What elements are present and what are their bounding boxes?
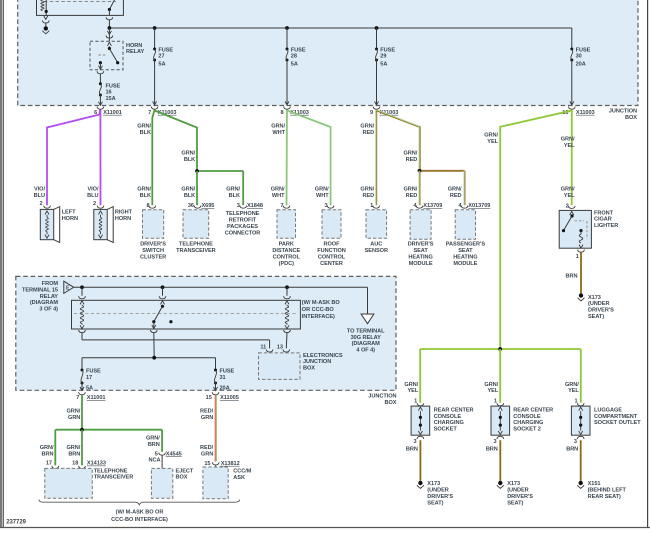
label GRN/YEL (socket 1) <box>404 382 418 394</box>
wire GRN/YEL to socket 1 <box>419 349 421 403</box>
relay K2 (junction box 2) <box>72 300 301 329</box>
connector 17 <box>46 461 59 469</box>
arrow to terminal 30G relay <box>347 314 385 354</box>
svg-text:HORN: HORN <box>115 216 131 222</box>
svg-text:ROOF: ROOF <box>324 242 341 248</box>
svg-text:BRN: BRN <box>406 446 418 452</box>
svg-text:DRIVER'S: DRIVER'S <box>507 494 533 500</box>
svg-text:15: 15 <box>206 395 212 401</box>
wire VIO/BLU to right horn <box>99 110 101 206</box>
svg-text:GRN/: GRN/ <box>315 187 329 193</box>
arrow E from terminal 15 relay <box>64 281 74 293</box>
ground below relay K6 <box>42 16 49 34</box>
horn relay <box>90 41 123 70</box>
svg-text:1: 1 <box>574 399 577 405</box>
svg-text:BRN: BRN <box>566 274 578 280</box>
svg-text:MODULE: MODULE <box>409 261 433 267</box>
fuse 31 <box>214 369 235 392</box>
svg-text:X173: X173 <box>507 481 520 487</box>
label GRN/BLK (transceiver) <box>181 187 195 199</box>
svg-text:SEAT): SEAT) <box>427 500 443 506</box>
svg-text:X11001: X11001 <box>87 395 106 401</box>
svg-text:GRN/: GRN/ <box>561 187 575 193</box>
ground X173 socket 1 <box>417 481 453 507</box>
svg-text:GRN/: GRN/ <box>484 382 498 388</box>
connector 13 <box>277 345 290 352</box>
page border right <box>647 0 649 528</box>
svg-text:OR CCC-BO: OR CCC-BO <box>302 307 335 313</box>
rear center console charging socket <box>411 399 473 445</box>
label GRN/BLK (retrofit) <box>226 187 240 199</box>
svg-text:TELEPHONE: TELEPHONE <box>226 211 260 217</box>
junction box label (top) <box>609 109 638 121</box>
wire GRN/RED to passengers seat heating <box>464 171 465 205</box>
CCC/M ASK box <box>203 467 252 499</box>
svg-text:DRIVER'S: DRIVER'S <box>140 242 166 248</box>
svg-text:SEAT): SEAT) <box>507 500 523 506</box>
right horn <box>94 207 133 243</box>
svg-text:31: 31 <box>220 375 226 381</box>
svg-text:7: 7 <box>148 110 151 116</box>
label GRN/RED (top) <box>360 124 374 136</box>
label GRN/WHT (top) <box>271 124 285 136</box>
svg-text:X11003: X11003 <box>576 110 595 116</box>
wire coil left to connector 11 <box>79 330 270 348</box>
label BRN (cigar) <box>566 274 578 280</box>
wire GRN/BLK to drivers switch cluster <box>152 110 154 206</box>
svg-text:TRANSCEIVER: TRANSCEIVER <box>94 475 134 481</box>
svg-text:YEL: YEL <box>568 388 579 394</box>
connector 2 right horn <box>93 201 104 208</box>
svg-text:HEATING: HEATING <box>408 254 432 260</box>
svg-text:REAR SEAT): REAR SEAT) <box>588 494 621 500</box>
svg-text:15A: 15A <box>106 96 116 102</box>
junction box (top, cut off at top edge) <box>18 0 638 106</box>
svg-text:EJECT: EJECT <box>176 468 194 474</box>
label GRN/BLK (cluster) <box>137 187 151 199</box>
connector 8 drivers switch cluster <box>146 203 155 209</box>
label BRN (socket outlet) <box>566 446 578 452</box>
svg-text:YEL: YEL <box>487 139 498 145</box>
svg-text:5A: 5A <box>380 62 387 68</box>
svg-text:FUSE: FUSE <box>220 369 235 375</box>
svg-text:REAR CENTER: REAR CENTER <box>513 407 553 413</box>
svg-text:CONSOLE: CONSOLE <box>434 414 462 420</box>
svg-text:36: 36 <box>188 203 194 209</box>
wire BRN socket outlet <box>580 440 582 481</box>
wire coil right to connector 13 <box>284 330 291 348</box>
wire GRN/YEL to socket outlet <box>580 349 582 403</box>
wire GRN/BLK to telephone transceiver <box>196 171 198 205</box>
label GRN/BRN (17) <box>40 445 54 457</box>
svg-text:JUNCTION: JUNCTION <box>609 109 637 115</box>
svg-text:CCC/M: CCC/M <box>233 469 251 475</box>
relay K6 (cut off at top) <box>37 0 124 15</box>
relay K2 coil right <box>284 287 291 329</box>
svg-text:CENTER: CENTER <box>320 261 343 267</box>
svg-text:GRN/: GRN/ <box>448 187 462 193</box>
svg-text:(W/ M-ASK BO: (W/ M-ASK BO <box>302 300 341 306</box>
label VIO/BLU (left) <box>34 187 46 199</box>
svg-text:20A: 20A <box>576 62 586 68</box>
svg-text:TERMINAL 15: TERMINAL 15 <box>22 288 58 294</box>
svg-text:3: 3 <box>237 203 240 209</box>
svg-text:FUSE: FUSE <box>106 83 121 89</box>
label GRN/RED (auc) <box>360 187 374 199</box>
svg-text:JUNCTION: JUNCTION <box>368 394 396 400</box>
svg-text:GRN/: GRN/ <box>181 187 195 193</box>
telephone transceiver <box>176 210 216 254</box>
svg-text:VIO/: VIO/ <box>34 187 45 193</box>
svg-text:FUSE: FUSE <box>380 47 395 53</box>
roof function control center <box>317 210 346 267</box>
connector 3 roof function center <box>325 203 334 209</box>
label GRN/GRN <box>67 409 81 421</box>
svg-text:FROM: FROM <box>42 281 59 287</box>
svg-text:GRN: GRN <box>201 415 213 421</box>
svg-text:TELEPHONE: TELEPHONE <box>179 242 213 248</box>
connector 6 X11001 <box>94 107 122 116</box>
label GRN/YEL (top) <box>561 137 575 149</box>
svg-text:11: 11 <box>260 345 266 351</box>
svg-text:COMPARTMENT: COMPARTMENT <box>594 414 638 420</box>
svg-text:GRN/: GRN/ <box>484 133 498 139</box>
node GRN split <box>55 428 162 432</box>
svg-text:REAR CENTER: REAR CENTER <box>434 407 474 413</box>
wire GRN/BRN to transceiver pin 18 <box>81 430 83 466</box>
connector 2 cigar lighter <box>566 203 575 209</box>
svg-text:X013709: X013709 <box>468 203 490 209</box>
fuse 30 <box>570 28 591 105</box>
svg-text:3: 3 <box>414 439 417 445</box>
svg-text:3: 3 <box>574 439 577 445</box>
connector 15 X11005 <box>206 392 239 401</box>
label GRN/BLK (branch) <box>181 151 195 163</box>
wire GRN/RED to drivers seat heating <box>419 171 420 205</box>
wire BRN socket 2 <box>499 440 501 481</box>
svg-text:CONTROL: CONTROL <box>273 254 301 260</box>
bus wire (top horizontal) <box>108 26 572 30</box>
label NCA <box>149 458 161 464</box>
svg-text:SWITCH: SWITCH <box>142 248 164 254</box>
svg-text:BLU: BLU <box>34 193 45 199</box>
svg-text:HORN: HORN <box>126 43 142 49</box>
svg-text:GRN/: GRN/ <box>146 435 160 441</box>
svg-text:18: 18 <box>72 461 78 467</box>
svg-text:CLUSTER: CLUSTER <box>140 254 166 260</box>
bus wire 2 (terminal 15) <box>74 285 368 289</box>
wire GRN/YEL socket bus <box>420 347 581 351</box>
svg-text:DRIVER'S: DRIVER'S <box>588 308 614 314</box>
wire RED/GRN from connector 15 <box>215 395 216 462</box>
svg-text:CONNECTOR: CONNECTOR <box>225 230 261 236</box>
svg-text:GRN/: GRN/ <box>67 409 81 415</box>
svg-text:5A: 5A <box>158 62 165 68</box>
connector 11 <box>260 345 273 352</box>
connector 10 X11003 <box>562 107 594 116</box>
svg-text:GRN/: GRN/ <box>271 124 285 130</box>
svg-text:FUNCTION: FUNCTION <box>317 248 346 254</box>
svg-text:JUNCTION: JUNCTION <box>303 359 331 365</box>
svg-text:GRN/: GRN/ <box>137 187 151 193</box>
front cigar lighter <box>559 210 618 248</box>
connector 4 X013709 <box>458 203 490 209</box>
svg-text:BLK: BLK <box>184 157 195 163</box>
connector 8 X11003 <box>281 107 309 116</box>
svg-text:BRN: BRN <box>486 446 498 452</box>
svg-text:(UNDER: (UNDER <box>588 301 609 307</box>
svg-text:GRN/: GRN/ <box>360 187 374 193</box>
svg-text:BOX: BOX <box>303 366 315 372</box>
svg-text:RED: RED <box>406 157 418 163</box>
park distance control (PDC) <box>272 210 300 267</box>
svg-text:RELAY: RELAY <box>126 49 145 55</box>
label GRN/RED (pass seat) <box>448 187 462 199</box>
svg-text:(DIAGRAM: (DIAGRAM <box>30 300 59 306</box>
wire BRN from cigar lighter <box>580 252 582 293</box>
svg-text:RED: RED <box>406 193 418 199</box>
node GRN/BLK split <box>195 169 243 173</box>
svg-text:28: 28 <box>291 54 297 60</box>
wire GRN/BLK branch to telephone <box>155 111 197 172</box>
svg-text:SEAT: SEAT <box>413 248 428 254</box>
svg-text:X14133: X14133 <box>87 461 106 467</box>
svg-text:RIGHT: RIGHT <box>115 210 133 216</box>
svg-text:5A: 5A <box>86 386 93 392</box>
svg-text:YEL: YEL <box>564 143 575 149</box>
svg-text:WHT: WHT <box>272 130 285 136</box>
ground X173 under drivers seat (cigar) <box>578 293 615 320</box>
svg-text:2: 2 <box>93 201 96 207</box>
wire GRN/RED branch <box>377 110 420 171</box>
svg-text:BOX: BOX <box>625 115 637 121</box>
label GRN/BLK (top) <box>137 124 151 136</box>
svg-text:30G RELAY: 30G RELAY <box>351 335 381 341</box>
label GRN/RED (branch) <box>404 151 418 163</box>
connector 36 X695 <box>188 203 215 209</box>
svg-text:GRN/: GRN/ <box>67 445 81 451</box>
svg-text:RED: RED <box>450 193 462 199</box>
wire GRN/RED to AUC sensor <box>376 110 377 206</box>
svg-text:FUSE: FUSE <box>576 47 591 53</box>
left horn <box>40 207 78 243</box>
svg-text:GRN/: GRN/ <box>226 187 240 193</box>
electronics junction box <box>259 353 343 380</box>
label GRN/YEL (socket outlet) <box>565 382 579 394</box>
svg-text:17: 17 <box>86 375 92 381</box>
svg-text:X13812: X13812 <box>221 461 240 467</box>
svg-text:TELEPHONE: TELEPHONE <box>94 468 128 474</box>
svg-text:RED: RED <box>363 193 375 199</box>
svg-text:BLK: BLK <box>140 193 151 199</box>
svg-text:GRN/: GRN/ <box>561 137 575 143</box>
svg-text:X13709: X13709 <box>423 203 442 209</box>
svg-text:BRN: BRN <box>68 452 80 458</box>
wire GRN/YEL to socket 2 <box>499 349 501 403</box>
svg-text:5A: 5A <box>291 62 298 68</box>
wire bus to horn relay <box>106 28 113 41</box>
svg-text:1: 1 <box>494 399 497 405</box>
svg-text:GRN/: GRN/ <box>404 187 418 193</box>
connector 5 X4545 <box>155 451 182 457</box>
svg-text:3 OF 4): 3 OF 4) <box>39 306 58 312</box>
label RED/GRN (top) <box>200 409 214 421</box>
svg-text:CONTROL: CONTROL <box>318 254 346 260</box>
wire GRN/BRN to eject box <box>161 430 163 452</box>
svg-text:HORN: HORN <box>62 216 78 222</box>
connector 9 X11003 <box>370 107 398 116</box>
page number 237729 <box>6 520 26 526</box>
svg-text:TO TERMINAL: TO TERMINAL <box>347 329 385 335</box>
svg-text:FUSE: FUSE <box>291 47 306 53</box>
svg-text:WHT: WHT <box>316 193 329 199</box>
fuse 16 label <box>106 83 121 102</box>
svg-text:17: 17 <box>46 461 52 467</box>
label RED/GRN (bottom) <box>200 445 214 457</box>
svg-text:BLU: BLU <box>87 193 98 199</box>
svg-text:LUGGAGE: LUGGAGE <box>594 407 622 413</box>
svg-text:VIO/: VIO/ <box>88 187 99 193</box>
wire GRN/BLK to retrofit connector <box>242 171 244 205</box>
AUC sensor <box>365 210 388 254</box>
svg-text:RED/: RED/ <box>200 445 214 451</box>
svg-text:5: 5 <box>155 451 158 457</box>
svg-text:GRN/: GRN/ <box>404 382 418 388</box>
svg-text:X151: X151 <box>588 481 601 487</box>
svg-text:1: 1 <box>414 399 417 405</box>
connector 18 X14133 <box>72 461 106 469</box>
ground X173 socket 2 <box>497 481 533 507</box>
relay K2 switch <box>152 287 173 329</box>
label W/ M-ASK-BO interface (relay) <box>302 300 341 320</box>
label GRN/BRN (eject) <box>146 435 160 447</box>
svg-text:15: 15 <box>204 461 210 467</box>
svg-text:(BEHIND LEFT: (BEHIND LEFT <box>588 488 627 494</box>
drivers seat heating module <box>408 210 434 267</box>
telephone retrofit packages connector <box>225 211 261 236</box>
svg-text:(PDC): (PDC) <box>279 261 294 267</box>
connector 15 X13812 <box>204 461 239 467</box>
svg-text:X173: X173 <box>427 481 440 487</box>
connector 2 left horn <box>39 201 50 208</box>
svg-text:CCC-BO INTERFACE): CCC-BO INTERFACE) <box>111 517 168 523</box>
svg-text:SOCKET OUTLET: SOCKET OUTLET <box>594 420 641 426</box>
svg-text:DISTANCE: DISTANCE <box>272 248 300 254</box>
svg-text:GRN/: GRN/ <box>137 124 151 130</box>
svg-text:LIGHTER: LIGHTER <box>594 223 618 229</box>
svg-text:BLK: BLK <box>184 193 195 199</box>
svg-text:(W/ M-ASK BO OR: (W/ M-ASK BO OR <box>116 510 164 516</box>
svg-text:RELAY: RELAY <box>40 294 59 300</box>
svg-text:CHARGING: CHARGING <box>513 420 543 426</box>
junction box 2 label <box>368 394 397 406</box>
wire VIO/BLU to left horn <box>47 110 100 206</box>
svg-text:BOX: BOX <box>385 400 397 406</box>
wire GRN/YEL to cigar lighter <box>571 110 573 206</box>
svg-text:BRN: BRN <box>42 452 54 458</box>
svg-text:GRN/: GRN/ <box>40 445 54 451</box>
eject box <box>151 468 194 498</box>
node GRN/RED split <box>418 169 465 173</box>
svg-text:RED/: RED/ <box>200 409 214 415</box>
svg-text:1: 1 <box>576 254 579 260</box>
svg-text:SEAT): SEAT) <box>588 314 604 320</box>
svg-text:X4545: X4545 <box>166 451 182 457</box>
connector 7 PDC <box>280 203 289 209</box>
drivers switch cluster <box>140 210 166 261</box>
passengers seat heating module <box>446 210 486 267</box>
svg-text:X695: X695 <box>202 203 215 209</box>
svg-text:3: 3 <box>493 439 496 445</box>
ground X151 socket outlet <box>577 481 626 500</box>
label GRN/RED (driver seat) <box>404 187 418 199</box>
wire GRN/GRN from connector 7 <box>81 395 83 430</box>
svg-text:FUSE: FUSE <box>158 47 173 53</box>
svg-text:BLK: BLK <box>140 130 151 136</box>
svg-text:8: 8 <box>281 110 284 116</box>
brace W/ M-ASK interface group <box>39 500 240 523</box>
svg-text:CIGAR: CIGAR <box>594 217 612 223</box>
svg-text:X11005: X11005 <box>220 395 239 401</box>
svg-text:PARK: PARK <box>279 242 294 248</box>
svg-text:20A: 20A <box>220 386 230 392</box>
label BRN (socket 1) <box>406 446 418 452</box>
svg-text:RETROFIT: RETROFIT <box>229 218 257 224</box>
svg-text:CONSOLE: CONSOLE <box>513 414 541 420</box>
label GRN/YEL (cigar) <box>561 187 575 199</box>
svg-text:MODULE: MODULE <box>453 261 477 267</box>
svg-text:RED: RED <box>363 130 375 136</box>
svg-text:9: 9 <box>370 110 373 116</box>
svg-text:HEATING: HEATING <box>453 254 477 260</box>
svg-text:PACKAGES: PACKAGES <box>227 224 258 230</box>
connector 3 X1848 <box>237 203 263 209</box>
wire eject box (NCA) <box>161 456 163 469</box>
svg-text:(UNDER: (UNDER <box>427 488 448 494</box>
svg-text:ASK: ASK <box>233 475 245 481</box>
connector 7 X11001 (lower) <box>76 392 105 401</box>
svg-text:INTERFACE): INTERFACE) <box>302 314 335 320</box>
label GRN/BRN (18) <box>67 445 81 457</box>
svg-text:GRN/: GRN/ <box>360 124 374 130</box>
svg-text:FUSE: FUSE <box>86 369 101 375</box>
svg-text:16: 16 <box>106 89 112 95</box>
wire to terminal 30G relay <box>367 287 369 314</box>
label GRN/WHT (pdc) <box>271 187 285 199</box>
wire GRN/WHT branch to roof function center <box>287 111 331 206</box>
rear center console charging socket 2 <box>491 399 553 445</box>
svg-text:BRN: BRN <box>148 442 160 448</box>
page border bottom <box>0 527 650 529</box>
fuse 28 <box>285 28 306 105</box>
svg-text:SENSOR: SENSOR <box>365 248 388 254</box>
from terminal 15 relay label <box>22 281 58 312</box>
svg-text:YEL: YEL <box>407 388 418 394</box>
svg-text:7: 7 <box>76 395 79 401</box>
svg-text:FRONT: FRONT <box>594 210 614 216</box>
svg-text:13: 13 <box>277 345 283 351</box>
svg-text:NCA: NCA <box>149 458 161 464</box>
svg-text:30: 30 <box>576 54 582 60</box>
svg-text:2: 2 <box>39 201 42 207</box>
svg-text:GRN/: GRN/ <box>181 151 195 157</box>
page border left <box>1 0 3 528</box>
label VIO/BLU (right) <box>87 187 99 199</box>
connector 7 X11003 <box>148 107 176 116</box>
svg-text:237729: 237729 <box>6 520 26 526</box>
fuse 17 <box>80 369 101 392</box>
svg-text:(UNDER: (UNDER <box>507 488 528 494</box>
